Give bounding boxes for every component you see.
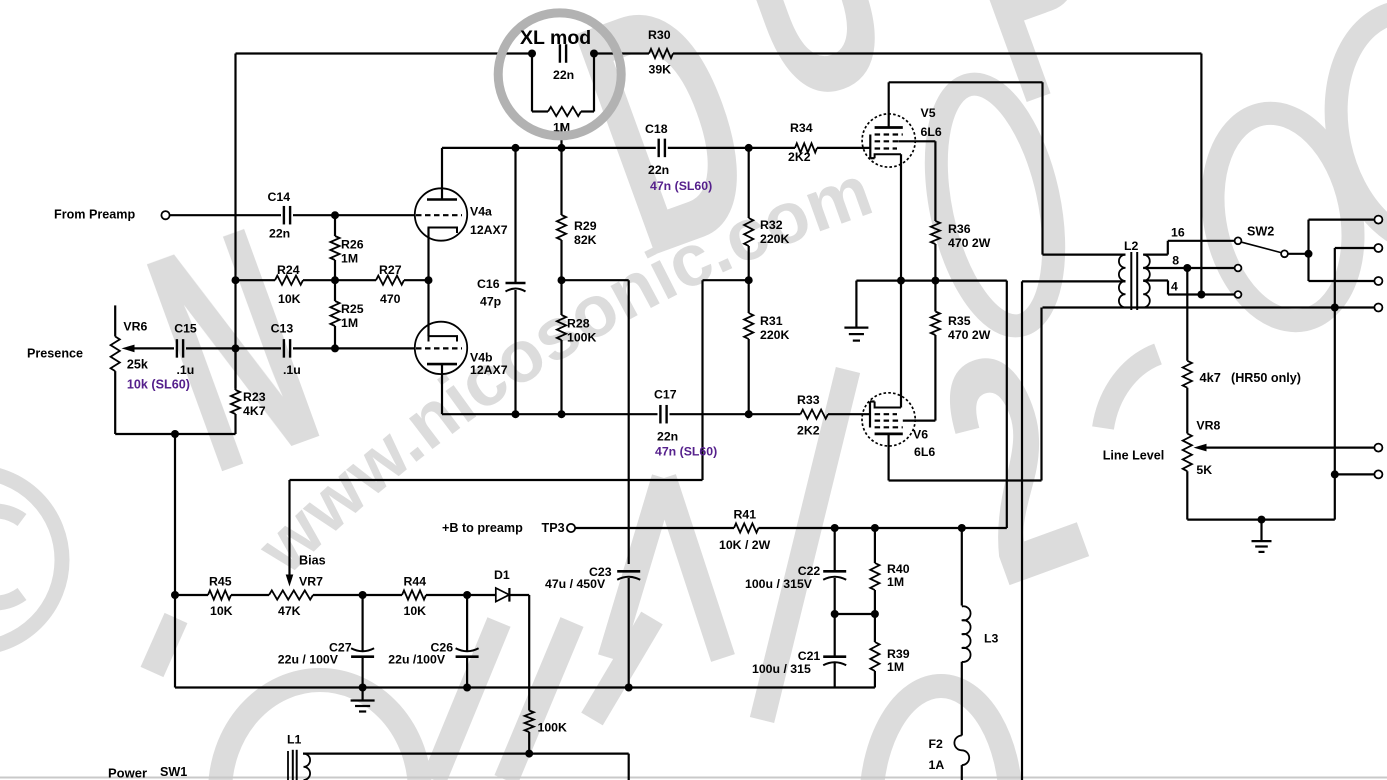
wire SW2 common: [1288, 253, 1309, 255]
node R31 bottom: [745, 410, 753, 418]
svg-text:C14: C14: [268, 190, 291, 204]
svg-text:47n (SL60): 47n (SL60): [650, 179, 712, 193]
label 4: [1171, 280, 1178, 294]
svg-text:D1: D1: [494, 568, 510, 582]
ground line level: [1252, 520, 1272, 552]
node rail x628 bottom: [625, 684, 633, 692]
label V6: [913, 428, 935, 460]
capacitor C18 22n: [659, 139, 665, 158]
svg-text:R34: R34: [790, 121, 813, 135]
svg-text:22n: 22n: [657, 430, 678, 444]
node R36-R35 junction: [931, 277, 939, 285]
node C27 bottom: [359, 684, 367, 692]
capacitor C27 22u: [351, 595, 374, 688]
wire top rail from XL mod to feedback corner: [236, 52, 1202, 54]
svg-text:R30: R30: [648, 28, 671, 42]
V6 grid dash: [875, 413, 897, 415]
diode D1: [496, 588, 510, 602]
label SW2: [1247, 225, 1274, 239]
capacitor C14 22n: [284, 206, 290, 225]
label F2: [929, 737, 945, 772]
wire V5 plate to transformer: [889, 82, 1043, 254]
node V4 cathode junction: [425, 276, 433, 284]
node C27 top: [359, 591, 367, 599]
resistor 4k7: [1183, 268, 1192, 434]
node line out jack junction: [1331, 470, 1339, 478]
label SW1: [160, 765, 187, 779]
svg-text:1M: 1M: [341, 252, 358, 266]
svg-text:39K: 39K: [649, 63, 672, 77]
label V5: [921, 106, 942, 139]
label R32: [760, 218, 790, 246]
VR6 wiper arrow: [122, 345, 175, 353]
svg-text:5K: 5K: [1196, 463, 1212, 477]
resistor R34 2K2: [795, 143, 817, 152]
label C18 alt 47n SL60: [650, 179, 712, 193]
wire R33 row: [442, 413, 870, 415]
V5 cathode: [875, 154, 901, 280]
line jack 2: [1374, 470, 1382, 478]
wire line out jack: [1335, 473, 1375, 475]
node L3 top: [958, 524, 966, 532]
resistor R36 470 2W: [931, 141, 940, 280]
svg-text:100K: 100K: [538, 721, 568, 735]
V5 beam dash: [875, 133, 903, 135]
label L3: [984, 632, 999, 646]
label R28: [567, 317, 597, 345]
node R29-R28 junction: [558, 276, 566, 284]
wire jack2 link: [1335, 248, 1375, 308]
wire XL mod loop: [532, 54, 594, 112]
node left rail R24: [232, 276, 240, 284]
node ground line level: [1258, 516, 1266, 524]
label R39: [887, 647, 910, 674]
label R34: [788, 121, 813, 164]
svg-text:R25: R25: [341, 302, 364, 316]
wire bias feed: [290, 480, 703, 578]
L2 primary top lead: [1043, 254, 1126, 256]
wire input row: [169, 214, 415, 216]
svg-text:C13: C13: [271, 322, 294, 336]
svg-text:From Preamp: From Preamp: [54, 208, 135, 222]
resistor XL mod 1M: [548, 107, 581, 116]
svg-text:47n (SL60): 47n (SL60): [655, 445, 717, 459]
node SW2 common junction: [1305, 250, 1313, 258]
ground bias: [351, 688, 375, 712]
svg-text:4k7: 4k7: [1200, 370, 1221, 385]
svg-text:SW1: SW1: [160, 765, 187, 779]
label R44: [404, 575, 427, 619]
node presence left rail: [232, 344, 240, 352]
label C16: [477, 277, 501, 309]
terminal TP3: [567, 524, 575, 532]
svg-text:22n: 22n: [648, 163, 669, 177]
node R40 bottom: [871, 610, 879, 618]
tube V6 circle: [862, 393, 915, 446]
node V5 cathode ground: [897, 277, 905, 285]
svg-text:VR8: VR8: [1196, 419, 1220, 433]
capacitor C15 .1u: [177, 339, 183, 358]
capacitor C13 .1u: [284, 339, 290, 358]
resistor R40 1M: [870, 528, 879, 614]
label 8: [1172, 254, 1179, 268]
resistor R35 470 2W: [931, 281, 940, 421]
node 8 tap junction: [1183, 264, 1191, 272]
label VR7: [278, 575, 323, 619]
svg-text:Line Level: Line Level: [1103, 449, 1165, 463]
svg-text:8: 8: [1172, 254, 1179, 268]
wire cathode ground row: [856, 280, 1006, 282]
svg-text:C17: C17: [654, 388, 677, 402]
label R23: [243, 390, 266, 418]
resistor R33 2K2: [801, 410, 829, 419]
svg-text:6L6: 6L6: [921, 125, 942, 139]
wire mid rail x628: [628, 280, 630, 564]
svg-text:1M: 1M: [887, 575, 904, 589]
line jack 1: [1374, 444, 1382, 452]
svg-text:SW2: SW2: [1247, 225, 1274, 239]
svg-text:Presence: Presence: [27, 347, 83, 361]
svg-text:V5: V5: [921, 106, 936, 120]
label Bias: [299, 554, 326, 568]
svg-text:220K: 220K: [760, 328, 790, 342]
L2 secondary winding: [1143, 255, 1150, 308]
VR7 bias arrow: [286, 575, 294, 587]
potentiometer VR7 47K: [269, 590, 313, 599]
svg-text:470 2W: 470 2W: [948, 328, 991, 342]
V4a cathode: [429, 228, 458, 281]
svg-text:47p: 47p: [480, 295, 501, 309]
resistor R30: [649, 49, 673, 58]
node R45 left: [171, 591, 179, 599]
node XL mod left junction: [528, 50, 536, 58]
label C13: [271, 322, 301, 378]
resistor R29 82K: [557, 148, 566, 280]
label From Preamp: [54, 208, 135, 222]
label C15: [174, 322, 197, 378]
svg-text:4K7: 4K7: [243, 404, 266, 418]
label 4k7: [1200, 370, 1301, 385]
label C18: [645, 122, 669, 177]
terminal input: [161, 211, 169, 219]
wire V6 plate to transformer: [889, 308, 1042, 481]
wire L1 row: [303, 754, 629, 780]
label C21: [752, 649, 820, 676]
wire C18 row: [442, 147, 870, 149]
svg-text:.1u: .1u: [177, 363, 195, 377]
wire R24 row: [236, 279, 429, 281]
resistor R45 10K: [208, 590, 231, 599]
node C16 bottom: [512, 410, 520, 418]
label Presence: [27, 347, 83, 361]
node VR6 bottom junction: [171, 430, 179, 438]
svg-text:C15: C15: [174, 322, 197, 336]
label Line Level: [1103, 449, 1165, 463]
svg-text:R29: R29: [574, 219, 597, 233]
V6 beam dash: [875, 426, 903, 428]
svg-text:1M: 1M: [341, 316, 358, 330]
svg-text:470: 470: [380, 292, 401, 306]
node C18-R32 junction: [745, 144, 753, 152]
wire +B row: [575, 527, 1007, 529]
svg-text:22u /100V: 22u /100V: [388, 653, 446, 667]
svg-text:C22: C22: [798, 564, 821, 578]
tube V4b circle: [415, 322, 467, 374]
label R29: [574, 219, 597, 247]
wire 8 tap: [1143, 267, 1234, 269]
svg-text:10K / 2W: 10K / 2W: [719, 538, 771, 552]
node C22 top: [831, 524, 839, 532]
svg-text:R45: R45: [209, 575, 232, 589]
svg-text:25k: 25k: [127, 358, 149, 372]
transformer L1: [288, 750, 310, 780]
svg-text:C16: C16: [477, 277, 500, 291]
label R26: [341, 238, 364, 266]
resistor R27 470: [376, 276, 404, 285]
wire center tap rail: [1021, 281, 1023, 780]
resistor R25 1M: [330, 280, 339, 348]
svg-text:6L6: 6L6: [914, 445, 935, 459]
node C16 top: [512, 144, 520, 152]
label R36: [948, 222, 991, 250]
svg-text:10k (SL60): 10k (SL60): [127, 378, 190, 392]
label R40: [887, 562, 910, 589]
fuse F2: [954, 736, 969, 780]
node C22 bottom: [831, 610, 839, 618]
wire presence row: [186, 347, 415, 349]
capacitor C26 22u: [456, 595, 479, 688]
resistor R44 10K: [402, 590, 426, 599]
wire R35 to V6 screen: [903, 420, 936, 422]
label R30: [648, 28, 671, 77]
svg-text:R39: R39: [887, 647, 910, 661]
svg-text:10K: 10K: [404, 604, 427, 618]
svg-text:XL mod: XL mod: [520, 27, 591, 49]
svg-text:1M: 1M: [887, 660, 904, 674]
VR8 wiper arrow: [1194, 444, 1375, 452]
node R32-R31 junction: [745, 276, 753, 284]
node 100K bottom: [525, 750, 533, 758]
ground V5: [844, 281, 868, 341]
svg-text:(HR50 only): (HR50 only): [1231, 371, 1301, 385]
capacitor XL mod 22n: [560, 44, 566, 63]
V4a plate: [427, 148, 457, 200]
inductor L3: [962, 528, 971, 736]
SW2 contact 4: [1235, 291, 1242, 298]
label TP3: [542, 521, 565, 535]
label Power: [108, 766, 147, 780]
label C26: [388, 641, 453, 667]
L2 bottom lead: [1043, 306, 1375, 308]
resistor R24 10K: [275, 276, 303, 285]
svg-text:V6: V6: [913, 428, 928, 442]
svg-text:R27: R27: [379, 263, 402, 277]
label C27: [278, 641, 352, 667]
wire VR8 bottom: [1187, 518, 1335, 520]
wire screens to B+ rail: [1006, 281, 1008, 528]
label R35: [948, 314, 991, 342]
label XL mod title: [520, 27, 591, 49]
node R28 bottom: [558, 410, 566, 418]
label XL mod 1M: [553, 121, 570, 135]
SW2 common contact: [1281, 250, 1288, 257]
label R27: [379, 263, 402, 306]
wire right rail lower: [1334, 308, 1336, 520]
V4b grid dashes: [416, 347, 462, 349]
svg-text:Power: Power: [108, 766, 147, 780]
label 5K: [1196, 463, 1212, 477]
wire feedback rail right: [1200, 54, 1202, 295]
wire V4 cathode rail: [427, 280, 429, 331]
resistor R28 100K: [557, 280, 566, 414]
label C14: [268, 190, 291, 241]
svg-text:10K: 10K: [210, 604, 233, 618]
svg-text:47u / 450V: 47u / 450V: [545, 577, 606, 591]
speaker jack 3: [1374, 277, 1382, 285]
svg-text:VR7: VR7: [299, 575, 323, 589]
wire main left rail vertical: [234, 54, 236, 389]
wire center tap stub: [1022, 280, 1126, 282]
capacitor C23 47u: [617, 571, 640, 585]
wire 16 tap: [1143, 241, 1234, 255]
resistor R26 1M: [330, 215, 339, 280]
svg-text:470 2W: 470 2W: [948, 236, 991, 250]
svg-text:2K2: 2K2: [797, 424, 820, 438]
node 4 tap feedback junction: [1197, 291, 1205, 299]
svg-text:12AX7: 12AX7: [470, 363, 508, 377]
svg-text:12AX7: 12AX7: [470, 223, 508, 237]
svg-text:R36: R36: [948, 222, 971, 236]
tube V5 circle: [862, 114, 915, 167]
SW2 contact 8: [1235, 265, 1242, 272]
label VR6 alt: [127, 378, 190, 392]
speaker jack 1: [1374, 216, 1382, 224]
svg-text:R32: R32: [760, 218, 783, 232]
svg-text:22n: 22n: [553, 68, 574, 82]
svg-text:R33: R33: [797, 393, 820, 407]
svg-text:220K: 220K: [760, 232, 790, 246]
svg-text:R31: R31: [760, 314, 783, 328]
V6 screen dash: [875, 420, 899, 422]
wire SW2 rail: [1309, 220, 1375, 281]
capacitor C21 100u: [823, 614, 846, 688]
capacitor C17 22n: [660, 405, 666, 424]
svg-text:22n: 22n: [269, 227, 290, 241]
label V4a: [470, 205, 508, 238]
V4b plate: [427, 364, 457, 414]
svg-text:R41: R41: [734, 508, 757, 522]
svg-text:R40: R40: [887, 562, 910, 576]
resistor R23 4K7: [231, 348, 240, 434]
label D1: [494, 568, 510, 582]
V5 grid dash: [875, 147, 897, 149]
wire rail x702: [701, 280, 703, 480]
wire R29 junction to rail: [562, 279, 629, 281]
label C17 alt 47n SL60: [655, 445, 717, 459]
wire bias row: [175, 594, 529, 596]
svg-text:R44: R44: [404, 575, 427, 589]
label 100K: [538, 721, 568, 735]
node R26-R25 junction: [331, 276, 339, 284]
V4b cathode: [429, 331, 458, 342]
V6 cathode: [875, 281, 901, 408]
label R45: [209, 575, 233, 619]
svg-text:47K: 47K: [278, 604, 301, 618]
svg-text:R23: R23: [243, 390, 266, 404]
resistor R31 220K: [744, 280, 753, 414]
speaker jack 4: [1374, 304, 1382, 312]
svg-text:R28: R28: [567, 317, 590, 331]
svg-text:22u / 100V: 22u / 100V: [278, 653, 339, 667]
svg-text:C18: C18: [645, 122, 668, 136]
svg-text:+B to preamp: +B to preamp: [442, 521, 523, 535]
tube V4a circle: [415, 188, 467, 240]
svg-text:R24: R24: [277, 263, 300, 277]
label 16: [1171, 226, 1185, 240]
svg-text:L2: L2: [1124, 239, 1139, 253]
label R33: [797, 393, 820, 438]
wire 4 tap: [1143, 281, 1234, 295]
label L1: [287, 733, 302, 747]
svg-text:V4a: V4a: [470, 205, 492, 219]
node R29 top: [558, 144, 566, 152]
svg-text:1A: 1A: [929, 758, 945, 772]
SW2 arm: [1242, 242, 1281, 252]
svg-text:L3: L3: [984, 632, 999, 646]
V5 grid side-bar: [870, 135, 874, 159]
wire VR6 bottom row: [115, 433, 235, 435]
wire bias bottom row: [175, 686, 875, 688]
speaker jack 2: [1374, 244, 1382, 252]
node XL mod right junction: [590, 50, 598, 58]
V5 plate: [875, 82, 903, 127]
node R40 top: [871, 524, 879, 532]
svg-text:100u / 315: 100u / 315: [752, 662, 811, 676]
potentiometer VR8 5K: [1183, 434, 1192, 520]
wire C22-R40 link: [835, 613, 875, 615]
node C14-R26 junction: [331, 211, 339, 219]
svg-text:100u / 315V: 100u / 315V: [745, 577, 813, 591]
resistor R32 220K: [744, 148, 753, 280]
node C26 top: [463, 591, 471, 599]
label VR8: [1196, 419, 1220, 433]
L2 primary winding: [1119, 255, 1126, 308]
resistor 100K: [525, 711, 534, 754]
wire D1 to 100K: [528, 595, 530, 711]
svg-text:10K: 10K: [278, 292, 301, 306]
svg-text:.1u: .1u: [283, 363, 301, 377]
wire left bias rail: [174, 434, 176, 688]
node jack link 0 line: [1331, 304, 1339, 312]
potentiometer VR6 25k: [111, 305, 120, 434]
svg-text:2K2: 2K2: [788, 150, 811, 164]
svg-text:C21: C21: [798, 649, 821, 663]
L2 core: [1131, 252, 1137, 310]
label XL mod 22n: [553, 68, 574, 82]
V6 grid side-bar: [870, 402, 875, 428]
label C23: [545, 565, 612, 591]
label R25: [341, 302, 364, 330]
label C17: [654, 388, 678, 444]
svg-text:100K: 100K: [567, 331, 597, 345]
node C26 bottom: [463, 684, 471, 692]
label R31: [760, 314, 790, 342]
svg-text:VR6: VR6: [123, 320, 147, 334]
svg-text:16: 16: [1171, 226, 1185, 240]
wire mid rail x628 lower: [628, 585, 630, 688]
XL mod circle: [498, 13, 621, 136]
label +B to preamp: [442, 521, 523, 535]
